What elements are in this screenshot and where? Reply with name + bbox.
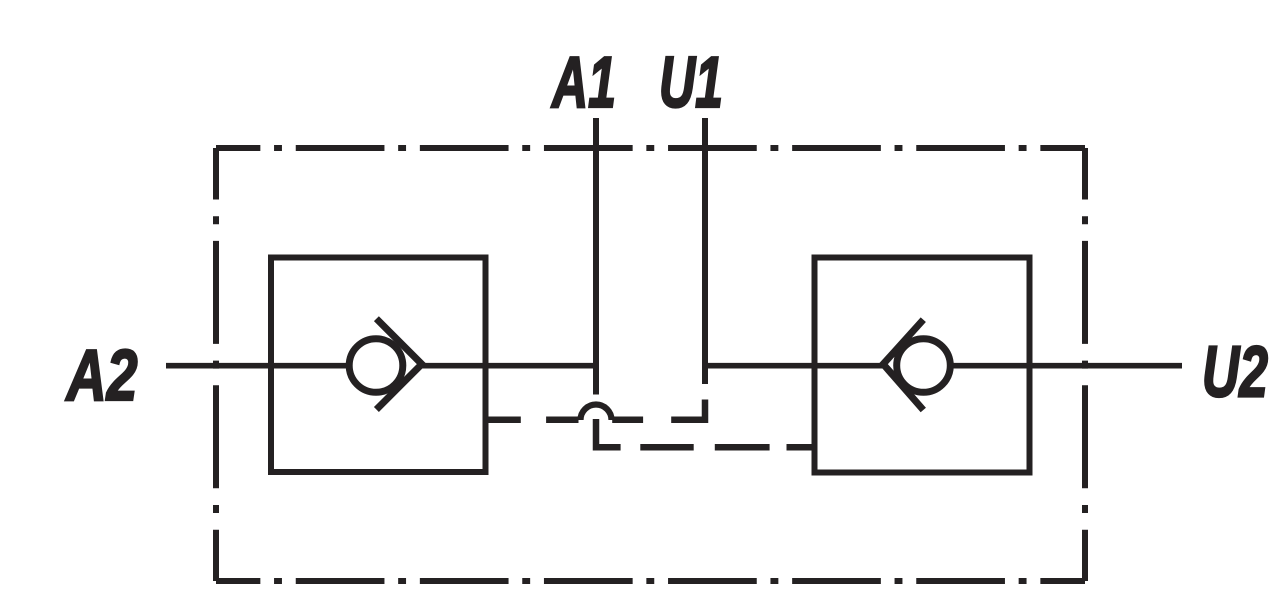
enclosure boundary top (dash-dot) xyxy=(216,145,1085,151)
pilot wire to V2 dash 3 xyxy=(715,444,770,451)
svg-text:U1: U1 xyxy=(659,43,723,123)
check valve V1 ball xyxy=(349,339,403,393)
wire A1 vertical xyxy=(593,118,599,395)
wire V2 outlet to U2 xyxy=(952,363,1182,369)
svg-text:U2: U2 xyxy=(1202,333,1268,413)
wire V1 outlet to node A1 xyxy=(420,363,599,369)
pilot line crossover hop over A1 xyxy=(580,404,611,420)
wire U1 vertical xyxy=(702,118,708,384)
svg-text:A2: A2 xyxy=(65,336,138,416)
check valve V2 seat xyxy=(883,320,923,410)
pilot wire to V2 dash 2 xyxy=(640,444,693,451)
pilot wire from V1 dash 1 (stub at box) xyxy=(487,416,521,423)
check valve V1 box xyxy=(271,258,486,473)
check valve V2 ball xyxy=(897,339,951,393)
enclosure boundary bottom (dash-dot) xyxy=(216,578,1085,584)
svg-text:A1: A1 xyxy=(551,43,616,123)
wire U1 to V2 inlet xyxy=(702,363,884,369)
wire A2 inlet xyxy=(166,363,347,369)
check valve V1 seat xyxy=(376,319,421,410)
pilot wire to V2 dash 4 (stub at box) xyxy=(787,444,817,451)
pilot wire dash 3 xyxy=(612,416,643,423)
pilot wire A1 downward corner xyxy=(596,419,621,447)
check valve V2 box xyxy=(815,258,1030,473)
enclosure boundary right (dash-dot) xyxy=(1082,148,1088,581)
pilot wire from V1 dash 2 xyxy=(546,416,578,423)
pilot corner joining U1 xyxy=(671,400,705,420)
enclosure boundary left (dash-dot) xyxy=(213,148,219,581)
